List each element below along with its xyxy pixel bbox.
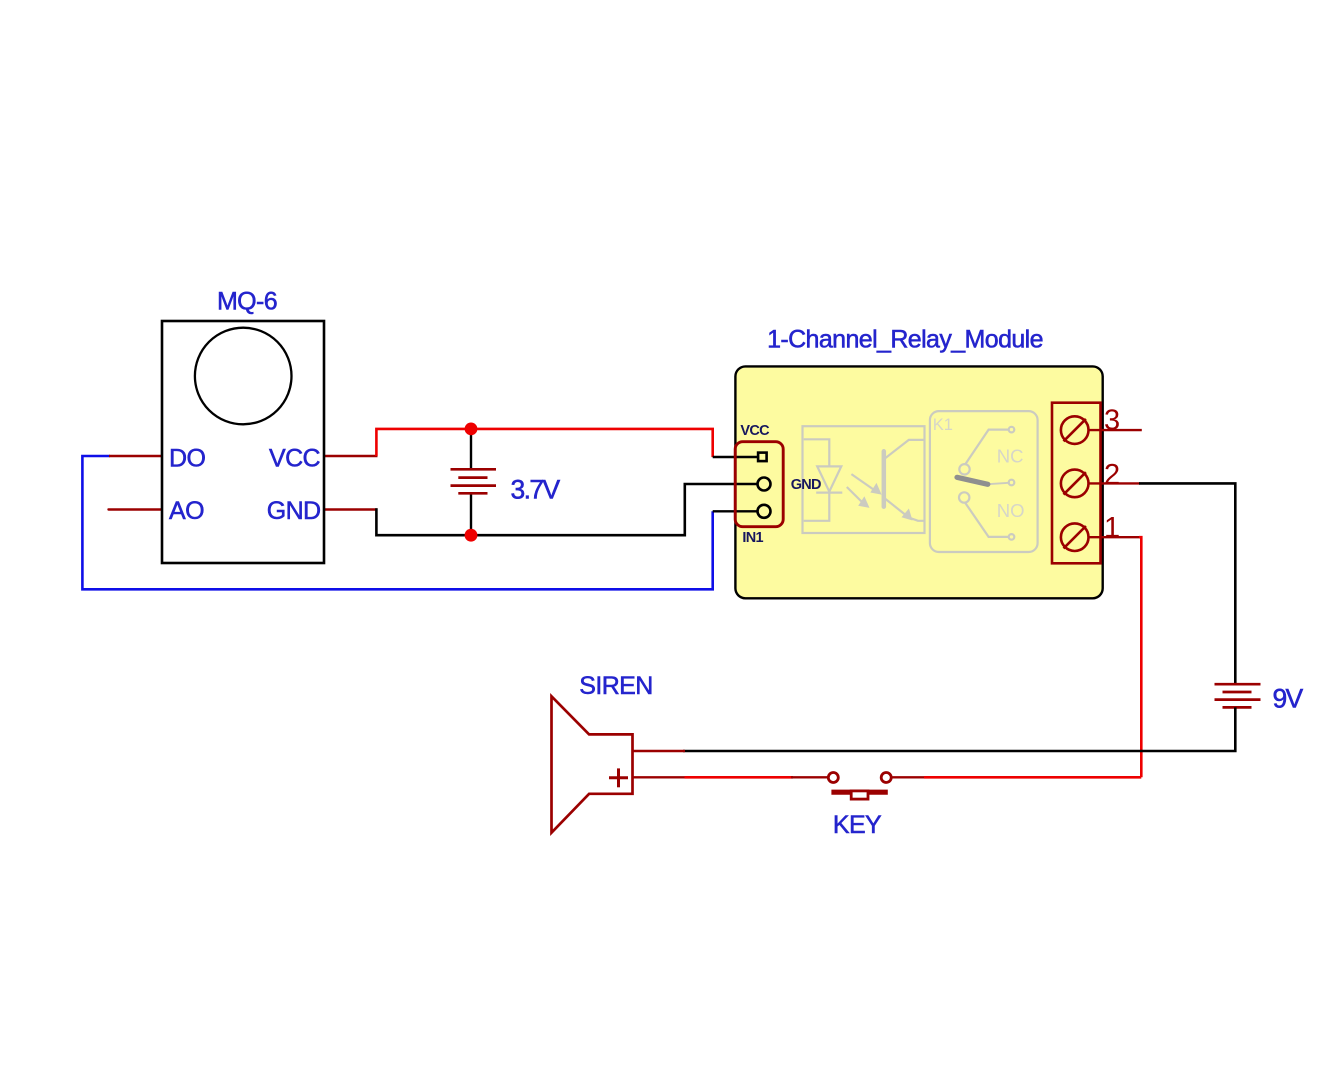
wire: terminal 2 to 9V battery (black) [1139,483,1235,684]
wire: GND to relay GND (black) [376,484,758,535]
siren top lead (dark red) [633,750,686,752]
wire: 9V battery to siren (black) [683,707,1235,751]
screw terminal 2 [1061,470,1089,498]
wire: terminal 1 to key (red) [1139,537,1141,777]
relay module body [735,366,1102,598]
wire: MQ6 VCC to relay VCC (red) [376,429,712,457]
relay armature [957,477,988,484]
MQ6 AO pin lead (dark red, open) [109,508,163,510]
terminal 2 lead [1089,482,1141,484]
svg-text:SIREN: SIREN [579,672,652,700]
svg-text:NC: NC [997,446,1024,467]
MQ6 DO pin lead (dark red) [109,455,162,457]
svg-text:MQ-6: MQ-6 [217,288,277,316]
siren LS1 [552,696,633,832]
screw terminal 1 [1061,523,1089,551]
svg-text:3: 3 [1104,404,1120,436]
MQ6 GND pin lead (dark red) [324,508,378,511]
VCC pin lead (black) [713,456,758,458]
wire: key to terminal 1 (red) [924,776,1141,779]
svg-text:3.7V: 3.7V [511,474,561,504]
relay input connector J1 [735,442,783,527]
MQ6 VCC pin lead (dark red) [324,455,378,458]
svg-text:AO: AO [169,497,204,525]
terminal 3 lead (open) [1089,429,1142,431]
terminal 1 lead [1089,536,1141,538]
svg-text:2: 2 [1104,459,1120,491]
MQ-6 sensor body [162,321,324,563]
MQ-6 sensor window [195,328,292,425]
siren plus mark [609,768,628,787]
svg-text:KEY: KEY [833,811,882,839]
svg-text:9V: 9V [1273,684,1304,714]
pin IN1 (circle) [758,505,771,518]
wire: MQ6 DO to relay IN1 (blue) [82,456,712,589]
terminal block J2 [1052,403,1101,564]
svg-text:IN1: IN1 [742,530,763,546]
svg-text:1-Channel_Relay_Module: 1-Channel_Relay_Module [767,326,1043,354]
svg-text:K1: K1 [933,416,953,434]
svg-text:1: 1 [1104,512,1120,544]
pin VCC (square) [758,453,767,462]
svg-text:GND: GND [267,497,321,525]
relay K1 (ghost) [930,411,1038,552]
svg-text:DO: DO [169,445,205,473]
junction node (bottom) [465,529,478,542]
svg-text:VCC: VCC [269,445,321,473]
wire: siren to key (red) [685,776,794,779]
svg-text:VCC: VCC [740,423,770,439]
optocoupler U1 (ghost) [803,426,925,533]
battery BT1 3.7V [451,429,497,535]
junction node (top) [465,423,478,436]
key right lead (dark red) [892,776,926,778]
siren plus lead (dark red) [633,776,687,778]
screw terminal 3 [1061,416,1089,444]
battery BT2 9V [1215,684,1261,707]
svg-text:GND: GND [791,477,821,493]
svg-text:NO: NO [997,500,1025,521]
IN1 pin lead (black) [713,510,758,512]
pushbutton S1 KEY [828,773,891,800]
pin GND (circle) [758,478,771,491]
key left lead (dark red) [791,776,828,778]
